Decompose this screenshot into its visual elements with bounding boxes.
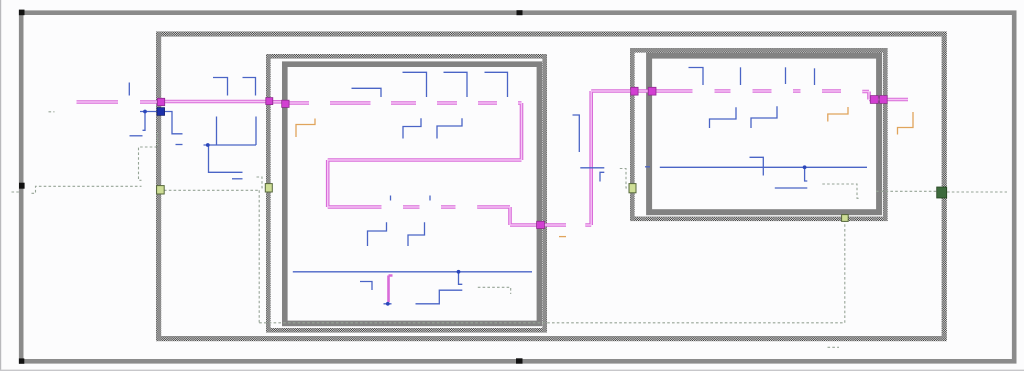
wire: right loop shift register run [660, 167, 867, 181]
tunnel: pink on right while right [870, 96, 878, 104]
terminal: left case selector [265, 184, 272, 192]
wire: mid compare to not-equal2 [580, 167, 604, 169]
wire: Port B 3 to spin [444, 72, 468, 97]
wire: outer shift register to or-gate [32, 186, 142, 193]
wire: const 10 to scale block [176, 144, 183, 146]
tunnel: pink on big case left [157, 98, 164, 105]
wire: Port B 4 to brake [485, 72, 508, 97]
wire: const 9 to trigger1 [213, 78, 228, 96]
tunnel: dark blue int on big case left [157, 108, 165, 116]
wire: read block count output [140, 112, 158, 131]
terminal: right case selector [629, 184, 636, 193]
wire: Port B 5 to back [390, 196, 392, 201]
wire: const 1000 to wait4 [898, 112, 914, 135]
wire: Port C 2 to fwd2 [740, 67, 742, 85]
case structure (right inner, True) border [632, 50, 885, 219]
wire: const 0 to not-equal [232, 178, 243, 180]
tunnel: boolean on right case bottom [842, 215, 849, 222]
wire: const 8 to trigger2 [243, 78, 256, 96]
wire junction dots (blue) [143, 110, 806, 306]
wire: const 60 to spin3 [751, 106, 777, 128]
wire: tunnel to scale block [165, 112, 183, 134]
wire: mid const 9 to compare [573, 115, 580, 152]
wire: const 30 to spin [437, 118, 462, 138]
wire: equal to left stop terminal [478, 287, 511, 294]
case structure (left inner, True) border [268, 56, 544, 330]
wire: clock block output to equal [384, 290, 463, 304]
wire: const 8 to compare3 [360, 282, 372, 291]
wire: Port C 1 to rotation2 [689, 68, 704, 86]
wire: const 15 to fwd [403, 118, 421, 138]
wire: equal2 to right stop terminal [822, 184, 860, 198]
wire: const 30 to fwd2 [710, 107, 737, 128]
wire: const 1 to right shift register [645, 166, 650, 168]
wire: T const to bluetooth block [49, 111, 55, 113]
outer loop top-left corner black square [19, 10, 25, 16]
wire: const 0.3 to wait-time1 [296, 119, 315, 138]
case structure (big, True) border [159, 34, 945, 339]
wire: Port B 1 to rotation [352, 88, 382, 97]
wire: const 20 to back [368, 222, 387, 246]
wire: pink link compare-to-clock (left loop bottom) [389, 276, 393, 303]
wire: greater output to or-gate [139, 133, 158, 180]
wire: F const to outer stop terminal [828, 346, 840, 348]
wire: const 9 to compare2 [750, 157, 764, 175]
while loop (right inner) border [649, 56, 879, 213]
wire: Port B 6 to spin2 [429, 196, 431, 201]
tunnel: pink on left while right (y225) [537, 221, 545, 228]
wire: Port C 3 to spin3 [785, 67, 787, 84]
tunnel: pink on right case right [880, 96, 888, 104]
wire: or-gate through case tunnel long run [164, 190, 845, 322]
outer loop bottom border black tick [516, 358, 523, 363]
wire: const 0.2 to wait-time3 [828, 107, 848, 122]
wire: const 0 to greater [130, 135, 143, 137]
wire: mid const 0 to not-equal2 [600, 172, 604, 181]
wire: integer (blue) wires [129, 67, 867, 303]
tunnel: boolean (or output) on big case left [157, 186, 165, 194]
outer loop bottom-left black square [19, 358, 24, 363]
wire: const -30 to spin2 [408, 222, 425, 246]
wire: float (orange) wires [296, 107, 913, 237]
wire: boolean (dashed) wires [12, 112, 1008, 347]
wire: mailbox label to read block [128, 83, 130, 96]
wire: NXT object (pink) main run [77, 91, 909, 302]
wire: right margin boolean run to outer shift register [876, 190, 1007, 193]
outer loop left shift-register black mark [19, 183, 25, 189]
wire: not-equal2 to right case selector [620, 169, 630, 189]
wire: not-equal to left case selector [257, 177, 266, 188]
wire: F const to outer shift register [12, 191, 20, 193]
wire: scale output run [204, 117, 257, 173]
tunnel: pink on right case left [631, 87, 638, 95]
wire: Port B 2 to fwd [403, 72, 427, 97]
tunnel: pink on left while left [282, 100, 289, 107]
wire: left loop shift register run [293, 272, 532, 285]
wire: compare2 to equal2 [775, 187, 808, 189]
tunnel: boolean on big case right (dark green) [937, 187, 947, 198]
tunnel: pink on right while left [648, 87, 656, 95]
outer loop top border black tick [517, 10, 523, 15]
page edge lines [0, 0, 1, 371]
wire: Port C 4 to brake3 [814, 68, 816, 85]
wire: const 4 to wait-mid [559, 236, 566, 238]
tunnel: pink on left case left [266, 98, 273, 105]
while loop (left inner) border [285, 64, 540, 323]
